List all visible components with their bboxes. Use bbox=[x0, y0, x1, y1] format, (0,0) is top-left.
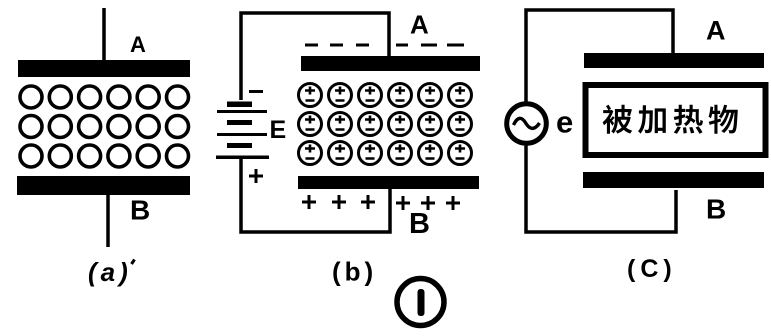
svg-text:(a): (a) bbox=[88, 257, 132, 287]
svg-text:E: E bbox=[270, 116, 287, 144]
svg-text:A: A bbox=[410, 10, 429, 40]
svg-text:e: e bbox=[556, 105, 573, 140]
svg-text:(C): (C) bbox=[627, 255, 677, 283]
svg-text:A: A bbox=[130, 32, 146, 57]
svg-text:B: B bbox=[409, 208, 430, 240]
svg-text:(b): (b) bbox=[332, 257, 377, 287]
svg-text:B: B bbox=[706, 194, 726, 225]
svg-text:B: B bbox=[130, 195, 150, 226]
svg-text:A: A bbox=[706, 16, 726, 46]
